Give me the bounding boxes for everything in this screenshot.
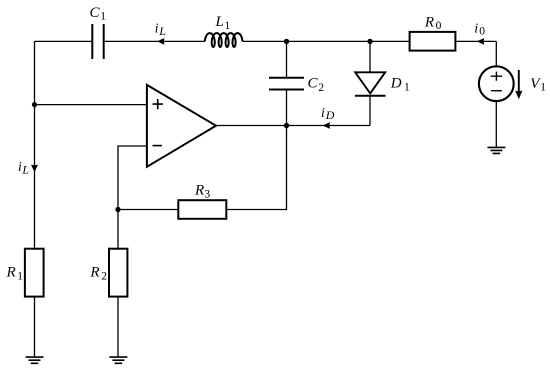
svg-text:C: C — [90, 5, 101, 21]
svg-text:1: 1 — [17, 270, 23, 282]
svg-text:L: L — [215, 14, 224, 30]
svg-text:2: 2 — [101, 270, 107, 282]
svg-text:L: L — [158, 24, 166, 38]
svg-text:1: 1 — [225, 20, 231, 32]
svg-text:C: C — [308, 76, 319, 92]
svg-text:i: i — [155, 20, 159, 35]
svg-text:3: 3 — [204, 188, 210, 200]
svg-text:0: 0 — [436, 20, 442, 32]
svg-text:R: R — [424, 14, 434, 30]
svg-text:D: D — [390, 75, 402, 91]
svg-text:0: 0 — [479, 26, 485, 38]
svg-text:1: 1 — [540, 82, 546, 94]
svg-text:D: D — [325, 108, 335, 122]
svg-text:1: 1 — [404, 81, 410, 93]
svg-text:i: i — [321, 105, 325, 120]
svg-text:i: i — [18, 159, 22, 174]
svg-text:R: R — [6, 264, 16, 280]
svg-text:i: i — [474, 21, 478, 36]
svg-text:L: L — [21, 163, 29, 177]
svg-text:R: R — [194, 182, 204, 198]
svg-text:2: 2 — [318, 82, 324, 94]
svg-text:R: R — [89, 264, 99, 280]
svg-text:1: 1 — [100, 11, 106, 23]
